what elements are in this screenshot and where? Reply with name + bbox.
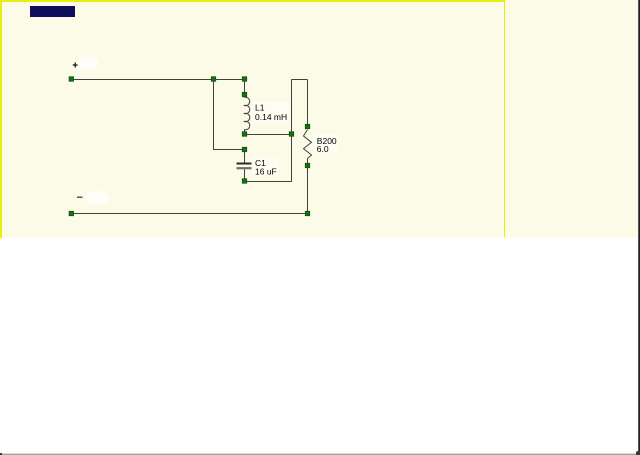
svg-text:0.14 mH: 0.14 mH [255,112,287,122]
svg-text:16 uF: 16 uF [255,167,277,177]
svg-text:6.0: 6.0 [317,144,329,154]
